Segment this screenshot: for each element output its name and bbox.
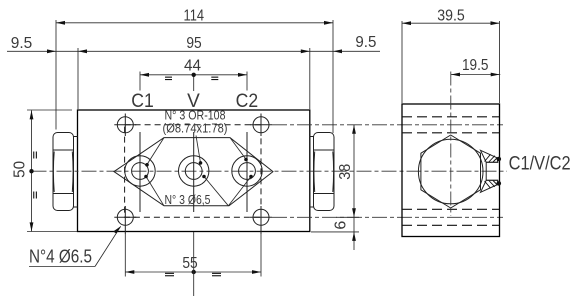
left hex plug head bbox=[53, 133, 74, 211]
mounting hole top-right bbox=[253, 114, 269, 137]
side view hex plug bbox=[418, 135, 483, 208]
side port plug section upper bbox=[481, 150, 498, 162]
centerline top holes row bbox=[114, 124, 503, 126]
N°4 Ø6.5 note bbox=[29, 226, 121, 266]
svg-text:N°4 Ø6.5: N°4 Ø6.5 bbox=[29, 247, 92, 267]
svg-text:50: 50 bbox=[12, 161, 29, 178]
dimension 114 bbox=[56, 8, 333, 133]
svg-text:19.5: 19.5 bbox=[462, 57, 489, 74]
OR-108 note bbox=[163, 109, 228, 136]
block outline front view bbox=[78, 110, 310, 232]
dimension 44 bbox=[140, 58, 247, 92]
left plug neck bbox=[74, 137, 78, 208]
dimension 55 bbox=[125, 232, 261, 296]
dimension 38 and 6 bbox=[311, 125, 359, 250]
dimension 50 bbox=[12, 110, 77, 232]
port V bbox=[179, 132, 209, 212]
dashed mounting rectangle bbox=[125, 125, 261, 218]
Ø6.5 leader to C2 bbox=[228, 177, 251, 206]
side view vertical centerline bbox=[450, 72, 452, 217]
dimension 19.5 bbox=[451, 57, 500, 76]
side plug bore bbox=[486, 162, 498, 180]
centerline bottom holes row bbox=[114, 216, 503, 218]
svg-text:N° 3 OR-108: N° 3 OR-108 bbox=[165, 109, 226, 123]
svg-text:C1: C1 bbox=[131, 91, 154, 112]
svg-text:9.5: 9.5 bbox=[11, 35, 33, 52]
svg-text:39.5: 39.5 bbox=[437, 7, 465, 24]
svg-text:N° 3 Ø6,5: N° 3 Ø6,5 bbox=[165, 193, 211, 207]
right hex plug head bbox=[314, 133, 335, 211]
svg-text:C1/V/C2: C1/V/C2 bbox=[509, 154, 571, 175]
svg-text:C2: C2 bbox=[236, 91, 259, 112]
dimension 95 and side 9.5s bbox=[7, 35, 380, 109]
dimension 39.5 bbox=[402, 7, 500, 103]
Ø6.5 leader to V bbox=[204, 177, 228, 206]
svg-text:55: 55 bbox=[182, 255, 197, 272]
centerline horizontal main bbox=[32, 170, 508, 172]
OR-108 leader to C2 bbox=[230, 138, 246, 160]
side view hidden bore lines top bbox=[402, 117, 500, 133]
right plug neck bbox=[310, 137, 314, 208]
mounting hole bottom-left bbox=[117, 206, 133, 234]
side port plug section lower bbox=[481, 180, 498, 192]
port dots on side face bbox=[497, 157, 502, 162]
svg-text:114: 114 bbox=[184, 8, 205, 25]
side view hidden bore lines bottom bbox=[402, 209, 500, 225]
OR-108 leader to C1 bbox=[147, 138, 164, 165]
svg-text:38: 38 bbox=[337, 164, 354, 180]
port C1 bbox=[125, 132, 155, 212]
port C2 bbox=[232, 132, 262, 212]
svg-text:44: 44 bbox=[184, 58, 201, 75]
hexagon boss outline bbox=[114, 138, 273, 206]
svg-text:9.5: 9.5 bbox=[355, 34, 376, 51]
mounting hole top-left bbox=[117, 114, 133, 137]
mounting hole bottom-right bbox=[253, 206, 269, 234]
Ø6.5 leader to C1 bbox=[146, 177, 164, 206]
side view outline bbox=[402, 104, 500, 237]
svg-text:95: 95 bbox=[186, 35, 201, 52]
dimension 9.5 right bbox=[333, 34, 376, 53]
svg-text:6: 6 bbox=[332, 221, 349, 230]
svg-text:(Ø8.74x1.78): (Ø8.74x1.78) bbox=[163, 122, 228, 136]
OR-108 leader to V bbox=[196, 136, 201, 163]
dimension 9.5 left bbox=[11, 35, 56, 53]
